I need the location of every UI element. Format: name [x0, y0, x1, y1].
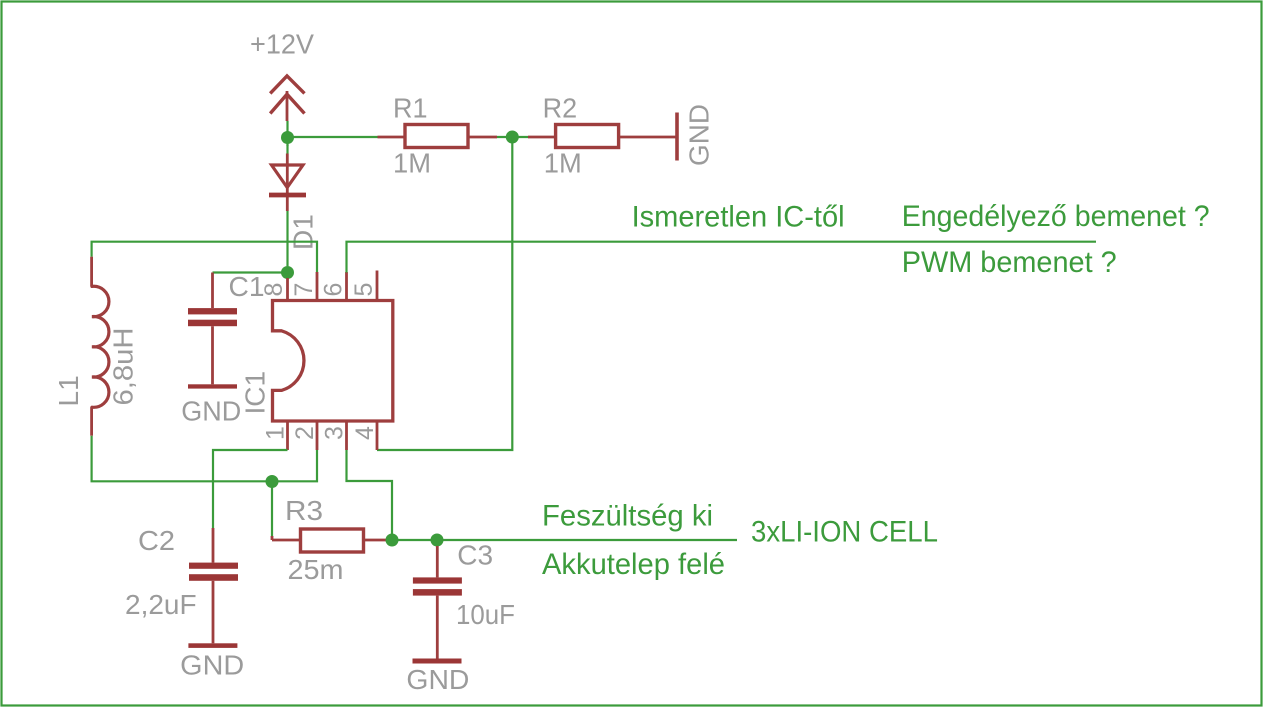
svg-text:8: 8: [260, 283, 288, 297]
wire junction down to pin4: [377, 137, 512, 450]
svg-text:4: 4: [351, 426, 379, 440]
svg-text:PWM bemenet ?: PWM bemenet ?: [902, 246, 1117, 279]
svg-text:Engedélyező bemenet ?: Engedélyező bemenet ?: [902, 200, 1210, 233]
svg-text:5: 5: [350, 283, 378, 297]
resistor R2: [528, 92, 676, 178]
supply symbol +12V (double chevron): [270, 76, 304, 121]
inductor L1: [53, 257, 139, 436]
resistor R3: [272, 495, 387, 585]
svg-text:GND: GND: [406, 664, 469, 695]
svg-text:10uF: 10uF: [456, 599, 515, 630]
svg-text:C2: C2: [138, 525, 175, 556]
svg-text:C3: C3: [457, 540, 493, 571]
pin 2 stub: [316, 421, 319, 450]
wire R3 to C3 junction and output: [387, 539, 737, 541]
ground symbol under C3: [406, 659, 469, 696]
node junction R3/pin3: [386, 534, 399, 547]
pin 7 stub: [316, 272, 319, 301]
capacitor C3: [413, 540, 515, 659]
svg-text:2: 2: [291, 426, 319, 440]
svg-text:Akkutelep felé: Akkutelep felé: [542, 548, 725, 581]
diode D1: [269, 145, 319, 251]
wire pin1 to C2: [213, 450, 288, 528]
node junction +12V/R1/D1: [281, 131, 294, 144]
svg-text:R2: R2: [543, 92, 578, 123]
node junction C3: [431, 534, 444, 547]
svg-text:L1: L1: [53, 375, 84, 406]
pin 4 stub: [376, 421, 379, 450]
node junction R1/R2: [506, 131, 519, 144]
wire junction down to R3: [271, 482, 273, 538]
IC1 body: [240, 301, 393, 422]
svg-text:2,2uF: 2,2uF: [125, 589, 197, 620]
wire R1 to junction to R2: [497, 136, 528, 138]
pin 5 stub: [376, 271, 379, 301]
svg-text:3xLI-ION CELL: 3xLI-ION CELL: [751, 516, 938, 549]
wire supply to junction: [286, 121, 288, 146]
svg-text:R3: R3: [285, 495, 323, 526]
svg-text:1M: 1M: [544, 148, 582, 179]
pin 3 stub: [345, 421, 348, 450]
pin 8 stub: [286, 278, 289, 301]
svg-text:7: 7: [290, 283, 318, 297]
capacitor C2: [125, 525, 238, 643]
svg-text:6,8uH: 6,8uH: [108, 328, 139, 406]
wire L1 top / pin7 net: [92, 242, 317, 273]
svg-text:25m: 25m: [288, 554, 344, 585]
wire L1 bottom to junction to pin2: [92, 436, 317, 482]
pin 1 stub: [286, 421, 289, 450]
svg-text:Ismeretlen IC-től: Ismeretlen IC-től: [632, 200, 845, 233]
svg-text:1M: 1M: [393, 148, 431, 179]
wire pin6 to right (enable input): [347, 242, 1097, 273]
svg-text:1: 1: [262, 426, 290, 440]
node junction D1/C1/pin8: [281, 266, 294, 279]
svg-text:IC1: IC1: [240, 371, 271, 415]
svg-text:3: 3: [321, 426, 349, 440]
svg-text:GND: GND: [180, 650, 244, 681]
svg-text:Feszültség ki: Feszültség ki: [542, 500, 713, 533]
resistor R1: [378, 92, 498, 178]
svg-text:GND: GND: [181, 396, 241, 427]
svg-text:R1: R1: [393, 92, 428, 123]
wire junction to C1: [213, 271, 288, 273]
capacitor C1: [188, 271, 265, 384]
ground symbol under C2: [180, 643, 244, 680]
ground symbol under C1: [181, 384, 241, 426]
node junction L1/pin2/R3: [266, 475, 279, 488]
svg-text:6: 6: [320, 283, 348, 297]
svg-text:GND: GND: [684, 104, 715, 166]
wire D1 to junction pin8: [286, 211, 288, 266]
svg-text:D1: D1: [288, 214, 319, 250]
wire pin3 down to R3 right junction: [347, 450, 393, 534]
svg-text:+12V: +12V: [250, 29, 314, 60]
ground symbol right of R2: [677, 104, 715, 166]
wire junction to R1: [288, 136, 378, 138]
pin 6 stub: [345, 272, 348, 301]
